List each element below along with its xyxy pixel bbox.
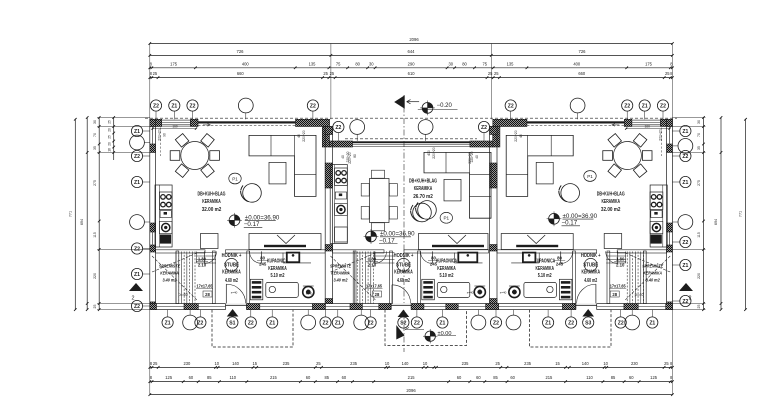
grid bubble plain right <box>672 221 678 223</box>
svg-text:Z2: Z2 <box>682 240 688 246</box>
svg-text:220+20: 220+20 <box>432 147 436 159</box>
svg-text:2: 2 <box>689 296 692 302</box>
svg-text:135: 135 <box>309 61 317 66</box>
grid bubble plain bottom <box>189 310 191 316</box>
svg-text:Z2: Z2 <box>568 320 574 326</box>
svg-text:3.40 m2: 3.40 m2 <box>163 278 177 284</box>
door swing <box>226 284 245 303</box>
svg-text:2096: 2096 <box>409 37 419 42</box>
staircase treads vertical flight <box>354 252 356 304</box>
sofa side table <box>536 162 553 184</box>
svg-text:p=40: p=40 <box>178 292 188 297</box>
svg-text:2096: 2096 <box>406 388 416 393</box>
svg-text:70: 70 <box>93 133 97 137</box>
elevation mark <box>549 213 560 224</box>
door swing <box>205 251 217 263</box>
svg-text:Z2: Z2 <box>134 304 140 310</box>
svg-text:17x17,65: 17x17,65 <box>366 284 383 289</box>
grid bubbles right column <box>672 130 680 132</box>
grid bubbles top row <box>155 111 157 119</box>
bottom wall pier <box>562 304 575 310</box>
wall pier left <box>150 223 156 232</box>
interior wall vertical <box>353 251 356 304</box>
door swing <box>375 251 387 263</box>
dimension line top 2096 <box>150 43 673 45</box>
washing machine <box>509 286 520 297</box>
grid bubble plain bottom <box>477 310 479 316</box>
svg-text:235: 235 <box>462 361 470 366</box>
svg-text:KUPAONICA: KUPAONICA <box>534 259 555 265</box>
svg-text:660: 660 <box>578 71 586 76</box>
svg-text:5.10 m2: 5.10 m2 <box>271 273 285 279</box>
washbasin <box>523 253 536 263</box>
dimension line right 694 <box>720 118 722 310</box>
armchair swivel middle <box>413 203 432 222</box>
svg-text:KERAMIKA: KERAMIKA <box>202 199 221 205</box>
interior wall vertical <box>573 251 576 304</box>
svg-text:Z2: Z2 <box>624 103 630 109</box>
dimension line bottom 2096 <box>150 394 673 396</box>
dining table middle <box>370 179 390 223</box>
svg-text:Z2: Z2 <box>508 103 514 109</box>
svg-text:10: 10 <box>385 361 390 366</box>
top wall jog left <box>322 127 329 148</box>
lower glass wall with vent <box>419 234 489 250</box>
bathroom heater rack <box>422 279 435 300</box>
svg-text:80: 80 <box>260 256 265 261</box>
dimension line bottom row2 <box>150 381 673 383</box>
svg-text:Z1: Z1 <box>335 320 341 326</box>
svg-text:STUBE: STUBE <box>224 263 239 269</box>
svg-text:Z1: Z1 <box>682 263 688 269</box>
washbasin counter <box>283 262 311 264</box>
dimension line left 694 <box>86 118 88 310</box>
svg-text:s=40: s=40 <box>500 291 507 295</box>
wall pier right <box>667 245 673 252</box>
svg-text:25: 25 <box>316 361 321 366</box>
bathroom heater rack <box>559 279 572 300</box>
P1 label <box>440 212 452 223</box>
kitchen counter <box>650 185 667 247</box>
staircase upper flight treads <box>197 252 217 254</box>
dimension line left segments B <box>113 118 115 161</box>
svg-text:Z1: Z1 <box>171 103 177 109</box>
svg-text:Z2: Z2 <box>310 103 316 109</box>
svg-text:90: 90 <box>163 133 167 137</box>
dining round table <box>613 142 641 170</box>
entrance door opening <box>391 303 411 310</box>
svg-text:30: 30 <box>449 61 454 66</box>
svg-text:245: 245 <box>259 262 267 267</box>
svg-text:235: 235 <box>350 361 358 366</box>
witness lines top <box>149 44 151 120</box>
door swing <box>421 251 433 263</box>
svg-text:215: 215 <box>545 375 553 380</box>
svg-text:26.70 m2: 26.70 m2 <box>413 194 433 200</box>
grid bubbles recessed row <box>337 133 339 142</box>
svg-text:70: 70 <box>697 133 701 137</box>
svg-text:771: 771 <box>739 211 743 217</box>
kitchen washing machine <box>159 222 172 234</box>
svg-text:17x17,65: 17x17,65 <box>610 284 627 289</box>
sofa side table <box>269 162 286 184</box>
grid bubble plain top <box>245 113 247 119</box>
svg-text:10: 10 <box>215 361 220 366</box>
svg-text:80: 80 <box>431 256 436 261</box>
grid bubbles bottom row <box>167 310 169 317</box>
sofa L <box>424 152 491 218</box>
svg-text:175: 175 <box>645 61 653 66</box>
svg-text:40: 40 <box>341 155 345 159</box>
svg-text:Z2: Z2 <box>197 320 203 326</box>
svg-text:80: 80 <box>353 154 357 158</box>
svg-text:25: 25 <box>107 120 111 124</box>
svg-text:25: 25 <box>153 71 158 76</box>
bathtub <box>266 282 299 297</box>
staircase direction line <box>152 256 197 300</box>
svg-text:4.60 m2: 4.60 m2 <box>225 278 238 284</box>
svg-text:694: 694 <box>714 219 718 225</box>
washing machine <box>303 286 314 297</box>
kitchen counter <box>155 185 172 247</box>
svg-text:KERAMIKA: KERAMIKA <box>222 270 241 276</box>
kitchen sink <box>651 211 662 218</box>
entry marker S3 <box>582 309 594 317</box>
grid bubbles left column <box>143 130 150 132</box>
dimension line bottom row1 <box>150 366 673 368</box>
svg-text:Z2: Z2 <box>660 103 666 109</box>
dimension line right segments <box>703 118 705 310</box>
svg-text:110: 110 <box>230 375 237 380</box>
interior wall horizontal <box>226 250 326 253</box>
witness lines right <box>672 117 705 119</box>
svg-text:Z2: Z2 <box>682 154 688 160</box>
staircase upper flight treads <box>606 252 626 254</box>
svg-text:Z1: Z1 <box>134 180 140 186</box>
svg-text:28: 28 <box>375 292 380 297</box>
svg-text:660: 660 <box>237 71 245 76</box>
kitchen counter <box>330 165 347 244</box>
svg-text:DB+KUH+BLAG: DB+KUH+BLAG <box>409 179 437 185</box>
bottom wall pier <box>247 304 260 310</box>
svg-text:Z2: Z2 <box>618 320 624 326</box>
svg-text:P1: P1 <box>587 174 593 179</box>
elevation -0.20 <box>422 103 433 114</box>
door swing <box>577 284 596 303</box>
svg-text:KERAMIKA: KERAMIKA <box>394 270 413 276</box>
svg-text:60: 60 <box>306 375 311 380</box>
svg-text:KERAMIKA: KERAMIKA <box>331 271 350 277</box>
kitchen sink <box>160 211 171 218</box>
svg-text:230: 230 <box>631 361 639 366</box>
grid bubble plain left <box>144 142 149 144</box>
svg-text:KERAMIKA: KERAMIKA <box>414 186 433 192</box>
roof overhang dashed <box>145 117 677 119</box>
svg-text:32.00 m2: 32.00 m2 <box>202 207 222 213</box>
svg-text:220+20: 220+20 <box>659 129 663 141</box>
svg-text:32.00 m2: 32.00 m2 <box>601 207 621 213</box>
svg-text:60: 60 <box>510 375 515 380</box>
bottom wall pier <box>666 304 673 310</box>
svg-text:140: 140 <box>402 361 410 366</box>
svg-text:25: 25 <box>93 305 97 309</box>
window left wall lower <box>152 232 154 245</box>
svg-text:28: 28 <box>205 292 210 297</box>
right exterior wall <box>667 119 673 309</box>
svg-text:P1: P1 <box>232 176 238 181</box>
dimension line right 771 <box>745 119 747 309</box>
window right wall lower <box>669 232 671 245</box>
svg-text:25: 25 <box>153 361 158 366</box>
svg-text:40: 40 <box>297 134 301 138</box>
svg-text:KUPAONICA: KUPAONICA <box>436 259 457 265</box>
window swing dashes left <box>160 128 162 157</box>
bottom wall pier <box>184 304 198 310</box>
svg-text:Z1: Z1 <box>269 320 275 326</box>
svg-text:Z1: Z1 <box>165 320 171 326</box>
washbasin <box>458 253 477 263</box>
window dim line top-left <box>153 128 196 130</box>
svg-text:Z1: Z1 <box>134 129 140 135</box>
top wall right window <box>632 120 661 126</box>
top wall right unit piers <box>493 119 527 126</box>
svg-text:110: 110 <box>586 375 593 380</box>
svg-text:S1: S1 <box>229 320 235 326</box>
grid bubble plain bottom <box>513 310 515 316</box>
elevation mark <box>366 231 377 242</box>
svg-text:Z2: Z2 <box>414 320 420 326</box>
svg-text:s=40: s=40 <box>467 291 474 295</box>
svg-text:10: 10 <box>603 361 608 366</box>
window right wall upper <box>669 127 671 145</box>
door swing <box>392 285 411 304</box>
svg-text:Z2: Z2 <box>493 320 499 326</box>
interior wall vertical <box>390 251 393 304</box>
svg-text:10: 10 <box>423 361 428 366</box>
kitchen stove <box>159 192 172 210</box>
interior wall vertical <box>607 251 610 304</box>
svg-text:Z2: Z2 <box>481 125 487 131</box>
svg-text:245: 245 <box>556 262 564 267</box>
witness lines left <box>97 117 150 119</box>
door swing <box>250 251 262 263</box>
party wall left-middle <box>325 127 332 304</box>
svg-text:4.60 m2: 4.60 m2 <box>397 278 410 284</box>
svg-text:235: 235 <box>283 361 291 366</box>
dining round table <box>181 142 209 170</box>
staircase upper flight treads <box>375 252 395 254</box>
svg-text:KUPAONICA: KUPAONICA <box>267 259 288 265</box>
staircase direction line <box>625 256 670 300</box>
washbasin <box>287 253 300 263</box>
kitchen washing machine <box>335 204 348 216</box>
svg-text:Z2: Z2 <box>134 246 140 252</box>
svg-text:KERAMIKA: KERAMIKA <box>535 266 554 272</box>
recessed window middle <box>353 141 470 143</box>
svg-text:Z1: Z1 <box>649 320 655 326</box>
svg-text:245: 245 <box>430 262 438 267</box>
svg-text:Z2: Z2 <box>190 103 196 109</box>
svg-text:85: 85 <box>325 375 330 380</box>
svg-text:220+20: 220+20 <box>158 129 162 141</box>
bottom wall pier <box>379 304 391 310</box>
staircase treads vertical flight <box>175 252 177 304</box>
svg-text:220+20: 220+20 <box>514 130 518 142</box>
wall pier right <box>667 302 673 310</box>
P1 label <box>584 171 596 182</box>
svg-text:18: 18 <box>107 148 111 152</box>
svg-text:Z1: Z1 <box>682 129 688 135</box>
svg-text:694: 694 <box>80 219 84 225</box>
svg-text:p=40: p=40 <box>635 292 645 297</box>
interior wall horizontal <box>404 250 489 253</box>
entrance arrow <box>394 95 405 109</box>
svg-text:−0.20: −0.20 <box>437 103 453 109</box>
interior wall vertical <box>176 251 179 304</box>
top wall left unit piers <box>150 119 162 126</box>
witness lines bottom <box>149 310 151 395</box>
interior wall horizontal <box>617 250 666 253</box>
svg-text:5.10 m2: 5.10 m2 <box>440 273 454 279</box>
top wall right glazing <box>527 121 625 123</box>
svg-text:60: 60 <box>457 375 462 380</box>
grid bubble plain bottom <box>631 310 633 316</box>
bathtub <box>524 282 557 297</box>
sofa side table <box>444 179 461 201</box>
wall pier right <box>667 119 673 126</box>
svg-text:726: 726 <box>237 49 245 54</box>
svg-text:Z1: Z1 <box>134 272 140 278</box>
svg-text:220: 220 <box>93 273 97 279</box>
top wall jog right <box>493 127 500 148</box>
interior wall vertical <box>643 251 646 304</box>
svg-text:1.80: 1.80 <box>198 257 207 262</box>
svg-text:4.60 m2: 4.60 m2 <box>584 278 597 284</box>
svg-text:125: 125 <box>165 375 173 380</box>
svg-text:115: 115 <box>697 232 701 238</box>
lower glass wall with vent <box>501 234 573 250</box>
entrance door opening <box>226 303 247 310</box>
kitchen dark appliance <box>160 235 171 244</box>
bottom wall <box>150 304 673 310</box>
bathtub <box>437 282 470 297</box>
svg-text:275: 275 <box>697 180 701 186</box>
wall pier right <box>667 144 673 153</box>
svg-text:400: 400 <box>573 61 581 66</box>
interior wall vertical <box>418 251 421 304</box>
svg-text:Z1: Z1 <box>545 320 551 326</box>
svg-text:290: 290 <box>408 61 416 66</box>
wall pier left <box>150 245 156 252</box>
svg-text:35: 35 <box>697 146 701 150</box>
svg-text:KERAMIKA: KERAMIKA <box>437 266 456 272</box>
armchair swivel <box>561 184 580 203</box>
svg-text:Z2: Z2 <box>323 320 329 326</box>
entrance door opening <box>576 303 597 310</box>
armchair swivel <box>418 201 437 220</box>
svg-text:25: 25 <box>664 361 669 366</box>
wall pier left <box>150 119 156 126</box>
svg-text:726: 726 <box>579 49 587 54</box>
svg-text:140: 140 <box>232 361 240 366</box>
porch left dashed <box>212 310 293 347</box>
kitchen washing machine <box>650 222 663 234</box>
centerline axis <box>403 95 405 352</box>
kitchen sink <box>335 192 346 199</box>
svg-text:STUBE: STUBE <box>583 263 598 269</box>
interior wall vertical <box>247 251 250 304</box>
kitchen stove <box>650 192 663 210</box>
svg-text:75: 75 <box>336 61 341 66</box>
elevation at entry <box>425 331 435 341</box>
svg-text:Z2: Z2 <box>153 103 159 109</box>
svg-text:20: 20 <box>107 142 111 146</box>
svg-text:Z1: Z1 <box>682 180 688 186</box>
svg-text:1.80: 1.80 <box>368 257 377 262</box>
svg-text:25: 25 <box>494 71 499 76</box>
recessed wall band left <box>330 141 353 147</box>
kitchen dark appliance <box>335 227 348 242</box>
kitchen stove <box>335 168 348 186</box>
left exterior wall <box>150 119 156 309</box>
bottom wall pier <box>446 304 458 310</box>
svg-text:25: 25 <box>488 71 493 76</box>
svg-text:215: 215 <box>270 375 278 380</box>
svg-text:80: 80 <box>462 61 467 66</box>
grid bubble plain right <box>672 145 678 147</box>
svg-text:60: 60 <box>629 375 634 380</box>
svg-text:15: 15 <box>555 361 560 366</box>
svg-text:DB+KUH+BLAG: DB+KUH+BLAG <box>597 192 625 198</box>
svg-text:60: 60 <box>189 375 194 380</box>
dimension line left segments A <box>98 118 100 310</box>
bottom wall pier <box>411 304 424 310</box>
svg-text:25: 25 <box>107 135 111 139</box>
svg-text:220+20: 220+20 <box>302 130 306 142</box>
interior wall horizontal <box>333 250 384 253</box>
bottom wall pier <box>624 304 638 310</box>
svg-text:400: 400 <box>242 61 250 66</box>
staircase treads vertical flight <box>645 252 647 304</box>
svg-text:220+20: 220+20 <box>468 152 472 164</box>
kitchen dark appliance <box>651 235 662 244</box>
svg-text:P1: P1 <box>443 216 449 221</box>
svg-text:STUBE: STUBE <box>396 263 411 269</box>
section marker right <box>679 283 693 291</box>
sofa L <box>249 135 316 196</box>
svg-text:85: 85 <box>207 375 212 380</box>
svg-text:160: 160 <box>645 124 651 128</box>
svg-text:610: 610 <box>408 71 416 76</box>
svg-text:s=40: s=40 <box>306 292 313 296</box>
svg-text:175: 175 <box>170 61 178 66</box>
svg-text:235: 235 <box>524 361 532 366</box>
party wall middle-right <box>490 127 497 304</box>
wall pier right <box>667 223 673 232</box>
svg-text:40: 40 <box>475 155 479 159</box>
interior wall horizontal <box>497 250 597 253</box>
svg-text:80: 80 <box>557 256 562 261</box>
hall cabinet right <box>604 234 622 249</box>
door swing <box>606 251 618 263</box>
svg-text:KERAMIKA: KERAMIKA <box>581 270 600 276</box>
svg-text:28: 28 <box>612 292 617 297</box>
svg-text:40: 40 <box>519 134 523 138</box>
svg-text:60: 60 <box>476 375 481 380</box>
grid bubble plain recessed <box>425 135 427 142</box>
top wall left glazing <box>198 121 296 123</box>
svg-text:220+20: 220+20 <box>348 152 352 164</box>
